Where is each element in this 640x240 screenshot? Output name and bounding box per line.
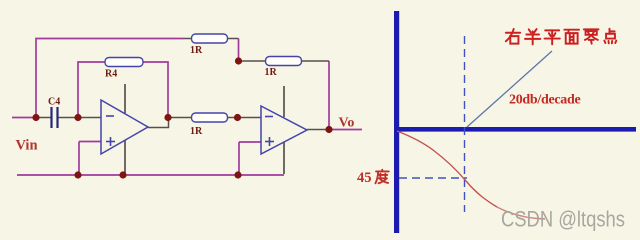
svg-text:1R: 1R <box>265 67 278 78</box>
svg-text:R4: R4 <box>105 69 117 80</box>
svg-text:1R: 1R <box>190 126 203 137</box>
svg-text:20db/decade: 20db/decade <box>509 93 580 108</box>
svg-text:CSDN @ltqshs: CSDN @ltqshs <box>501 207 625 232</box>
svg-text:Vin: Vin <box>16 138 38 154</box>
svg-text:C4: C4 <box>48 97 60 108</box>
svg-text:Vo: Vo <box>339 116 355 131</box>
svg-text:1R: 1R <box>190 45 203 56</box>
svg-text:45: 45 <box>357 170 372 186</box>
